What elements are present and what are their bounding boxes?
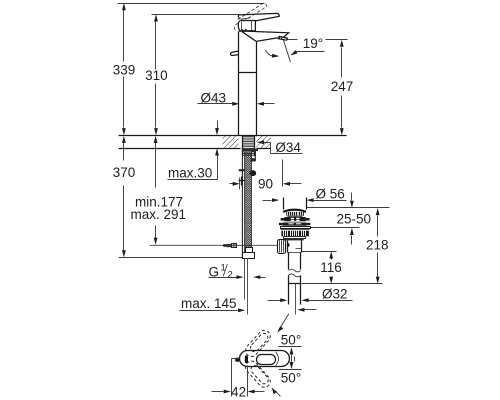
label max.30 with leaders (168, 121, 219, 181)
drain: coupling (289, 276, 301, 284)
svg-text:218: 218 (366, 238, 389, 253)
svg-text:116: 116 (320, 260, 342, 275)
dimension min.177 / max.291 (131, 136, 187, 245)
svg-text:42: 42 (231, 385, 246, 400)
label max. 145 with leader (180, 296, 317, 312)
svg-text:370: 370 (113, 165, 136, 180)
dimension diameter 32 (268, 286, 353, 302)
wire cap bottom extension line (307, 207, 390, 209)
drain: outlet pipe (289, 284, 301, 315)
supply pipe below nut (245, 259, 248, 315)
faucet handle dome (238, 21, 255, 32)
svg-text:max. 145: max. 145 (181, 296, 237, 311)
drain: tailpipe (289, 253, 301, 270)
drain: cap bottom dome (283, 210, 306, 212)
bottom view: handle swung up (dashed) (243, 328, 273, 359)
mounting stud (251, 152, 256, 162)
dimension diameter 43 (198, 90, 275, 105)
dimension diameter 56 (263, 186, 347, 202)
svg-text:339: 339 (113, 62, 136, 77)
drain: holes band (281, 217, 310, 221)
threaded shank (242, 136, 254, 157)
pop-up rod connector (223, 244, 237, 248)
wire double arrow side tick (294, 357, 296, 362)
drain: knurled band (286, 212, 304, 216)
wire pipe bottom extension line (302, 283, 383, 285)
drain: lift cap sides (284, 198, 307, 210)
dimension 310 (145, 14, 168, 135)
dimension 25-50 (337, 193, 372, 245)
dimension 90 (230, 176, 302, 191)
aerator (278, 36, 287, 40)
faucet rear tab (230, 51, 238, 55)
wire angle arc arrow (266, 50, 280, 58)
svg-text:50°: 50° (281, 332, 301, 347)
wire top reference line B (spout height) (152, 14, 240, 16)
svg-text:Ø43: Ø43 (201, 90, 227, 105)
faucet body column (239, 32, 257, 136)
braided supply hose (245, 152, 252, 253)
wire flange top extension line (307, 227, 360, 229)
countertop section (119, 136, 347, 149)
dimension 339 (113, 3, 136, 135)
drain: pipe break squiggle (288, 269, 300, 277)
dimension 116 (320, 251, 342, 283)
mounting nut bar (242, 149, 258, 151)
label 50deg upper (277, 314, 301, 348)
wire pop-up rod horizontal (150, 244, 278, 246)
wire water stream direction line (283, 40, 290, 62)
drain: body (288, 241, 302, 253)
svg-text:Ø34: Ø34 (275, 140, 301, 155)
svg-text:247: 247 (331, 79, 354, 94)
lower bracket (239, 177, 246, 186)
wire 90 dim drain centerline (282, 160, 284, 187)
drain: neck gap (288, 216, 303, 218)
drain: transition band and seal (284, 237, 306, 241)
faucet head and spout (239, 31, 289, 41)
label 50deg lower (272, 370, 302, 397)
dimension 247 (331, 40, 354, 136)
faucet lever raised position (dashed) (234, 3, 267, 30)
drain: flange (281, 227, 311, 230)
wire 50deg double arrow (290, 347, 294, 369)
svg-text:19°: 19° (303, 36, 323, 51)
dimension 370 (113, 136, 136, 258)
wire 19deg horizontal reference (287, 39, 348, 41)
faucet lever (solid) (238, 13, 279, 21)
svg-text:max.30: max.30 (168, 166, 212, 181)
label G 1/2 with leaders (209, 262, 266, 280)
label diameter 34 with leader (257, 140, 303, 155)
drain: knurled locknut (281, 231, 309, 237)
hose clip blob (249, 170, 256, 176)
svg-text:50°: 50° (281, 370, 301, 385)
wire 116 top reference line (302, 251, 337, 253)
svg-text:25-50: 25-50 (337, 211, 372, 226)
wire top reference line A (raised handle height) (118, 3, 265, 5)
svg-text:max. 291: max. 291 (131, 207, 187, 222)
G half inch nut (243, 248, 255, 259)
wire thin rod vertical (241, 157, 243, 258)
dimension 218 (366, 208, 389, 284)
label 19deg with leader (290, 36, 324, 55)
svg-text:Ø 56: Ø 56 (316, 186, 345, 201)
svg-text:Ø32: Ø32 (322, 286, 348, 301)
svg-text:310: 310 (145, 68, 168, 83)
wire hose end reference line (119, 257, 243, 259)
dimension 42 (212, 359, 265, 400)
svg-text:2: 2 (228, 270, 233, 281)
drain rod clamp (278, 240, 290, 254)
bottom view: handle stadium (235, 351, 289, 367)
bottom view: handle swung down (dashed) (243, 359, 273, 390)
svg-text:90: 90 (258, 176, 273, 191)
left bar fitting (239, 169, 245, 171)
drain: second band (279, 223, 310, 226)
